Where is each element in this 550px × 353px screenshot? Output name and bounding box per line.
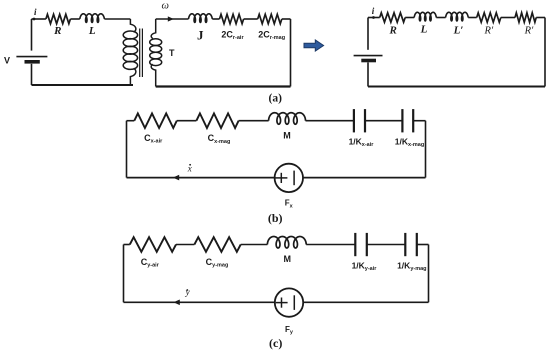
svg-text:1/Kx-mag: 1/Kx-mag [395,136,424,148]
battery source V long plate [16,56,47,58]
arrow current direction secondary [168,16,174,21]
wire M to capacitor 1/Kx-air [306,120,354,122]
label velocity y-dot [185,287,190,297]
wire L to L-prime [436,17,445,19]
arrow velocity direction y-dot [173,300,179,306]
wire capacitor to right edge [417,244,429,246]
battery source V short plate [25,60,40,64]
label 1/Kx-mag [395,136,424,148]
node i current dot (a) [33,18,36,21]
capacitor 1/Ky-air [355,233,367,256]
wire right edge circuit (c) [428,245,430,303]
node i dot right circuit [372,16,375,19]
wire capacitor to right edge [413,120,425,122]
label Fy [285,325,294,336]
transformer T core line 2 [141,29,143,78]
label (c) [269,336,282,350]
label M [284,254,292,264]
wire left edge circuit (c) [123,245,125,303]
svg-text:R′: R′ [524,26,534,37]
inductor J [189,14,213,23]
resistor R [46,14,71,23]
label R [53,25,61,37]
label Fx [285,199,294,210]
svg-text:R: R [389,25,397,37]
wire M to capacitor 1/Ky-air [306,244,355,246]
transformer T primary winding [123,19,137,85]
wire 2Cr-mag to right edge [282,18,291,20]
wire bottom circuit (c) [124,301,429,303]
wire lead to Cx-air [127,120,135,122]
wire battery to bottom right [367,62,369,86]
label T [169,48,175,58]
label R-prime 1 [483,26,493,37]
inductor M [267,237,306,249]
inductor M [269,113,306,125]
wire bottom of secondary loop [156,85,291,87]
svg-text:Fx: Fx [285,199,294,210]
svg-text:y: y [185,287,190,297]
label R-prime 2 [524,26,534,37]
inductor L-prime [446,12,469,21]
wire top-left of circuit (a) [32,18,46,20]
resistor 2Cr-mag [258,14,282,23]
svg-text:V: V [4,55,10,65]
label J [197,27,204,42]
label R equivalent [389,25,397,37]
wire between 2Cr resistors [244,18,258,20]
wire right edge circuit (b) [425,121,427,178]
label Cx-mag [208,133,231,145]
label 2Cr-air [221,29,244,41]
svg-text:J: J [197,27,204,42]
wire battery to bottom [31,64,33,85]
resistor Cx-mag [196,113,238,128]
wire R-prime to right edge [536,17,545,19]
svg-text:Cx-air: Cx-air [144,133,163,145]
label 1/Ky-air [352,260,378,272]
wire between R-primes [501,17,515,19]
wire between R and L [70,18,79,20]
wire bottom of primary loop [32,84,134,86]
wire top edge right circuit [368,17,380,19]
wire left edge above battery right [367,18,369,50]
label 2Cr-mag [258,29,285,41]
wire left edge above battery [31,19,33,51]
resistor R-prime 1 [477,13,501,22]
wire left edge circuit (b) [126,121,128,178]
label Cy-mag [206,257,229,269]
resistor R equivalent [380,13,406,22]
svg-text:ω: ω [161,1,168,12]
capacitor 1/Kx-air [354,109,365,132]
resistor R-prime 2 [515,13,536,22]
svg-text:(c): (c) [269,336,282,350]
wire J to 2Cr-air [212,18,219,20]
wire bottom right circuit [368,86,545,88]
svg-text:L′: L′ [453,25,464,37]
svg-text:1/Kx-air: 1/Kx-air [349,136,375,148]
resistor Cy-mag [194,237,240,252]
svg-text:R: R [53,25,61,37]
wire Cy-mag to M [241,244,268,246]
svg-text:M: M [283,130,291,140]
resistor 2Cr-air [220,14,244,23]
wire L-prime to R-prime [468,17,477,19]
label (a) [268,92,282,104]
label 1/Kx-air [349,136,375,148]
capacitor 1/Kx-mag [402,109,413,132]
wire bottom circuit (b) [127,177,426,179]
svg-text:L: L [88,25,96,37]
svg-text:(a): (a) [268,92,282,104]
svg-text:Cy-air: Cy-air [141,257,160,269]
resistor Cx-air [134,113,177,128]
svg-text:M: M [284,254,292,264]
capacitor 1/Ky-mag [405,233,417,256]
force source Fx [275,164,303,192]
svg-text:(b): (b) [268,211,283,225]
svg-text:1/Ky-air: 1/Ky-air [352,260,378,272]
label L equivalent [420,24,428,36]
inductor L equivalent [414,12,436,21]
svg-text:i: i [372,6,375,16]
blue equivalence arrow [304,40,324,51]
current label i (a) [34,7,37,17]
wire R to L [405,17,414,19]
force source Fy [275,288,303,316]
wire between capacitors [367,244,406,246]
label Cx-air [144,133,163,145]
label velocity x-dot [187,164,192,174]
svg-text:Cy-mag: Cy-mag [206,257,229,269]
inductor L [80,14,105,23]
resistor Cy-air [130,237,176,252]
label 1/Ky-mag [397,260,426,272]
label i right circuit [372,6,375,16]
wire lead to Cy-air [124,244,130,246]
svg-text:T: T [169,48,175,58]
label omega [161,1,168,12]
arrow velocity direction x-dot [173,175,179,181]
label L [88,25,96,37]
wire Cx-mag to M [239,120,269,122]
svg-text:Fy: Fy [285,325,294,336]
battery right long plate [354,55,383,57]
wire right edge of (a) [290,19,292,87]
label V [4,55,10,65]
svg-text:R′: R′ [483,26,493,37]
battery right short plate [361,59,376,63]
wire L to transformer [104,18,130,20]
svg-text:L: L [420,24,428,36]
label L-prime [453,25,464,37]
svg-text:i: i [34,7,37,17]
wire Cx-air to Cx-mag [177,120,197,122]
transformer T core line 1 [139,29,141,78]
wire secondary top [156,18,189,20]
svg-text:1/Ky-mag: 1/Ky-mag [397,260,426,272]
wire right edge right circuit [544,18,546,87]
svg-text:2Cr-air: 2Cr-air [221,29,244,41]
label (b) [268,211,283,225]
label M [283,130,291,140]
wire Cy-air to Cy-mag [176,244,194,246]
svg-text:Cx-mag: Cx-mag [208,133,231,145]
svg-text:2Cr-mag: 2Cr-mag [258,29,285,41]
label Cy-air [141,257,160,269]
transformer T secondary winding [150,19,162,87]
wire between capacitors [365,120,402,122]
